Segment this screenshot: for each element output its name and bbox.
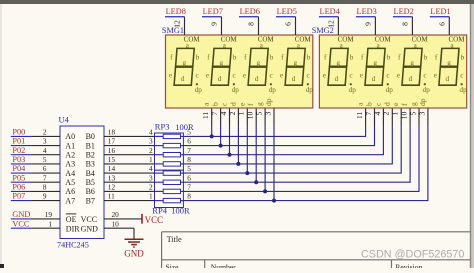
digit upper box outline <box>287 48 306 66</box>
seven-segment digit 3 of SMG2 <box>397 35 430 94</box>
svg-text:7: 7 <box>364 112 373 116</box>
window top bar <box>0 0 474 4</box>
svg-text:B2: B2 <box>86 150 95 159</box>
svg-text:17: 17 <box>108 137 116 146</box>
junction dot 2 <box>219 144 223 148</box>
svg-text:dp: dp <box>195 86 203 94</box>
svg-text:g: g <box>447 59 451 67</box>
wire segment net 5 horizontal <box>183 172 401 174</box>
SMG2 common pin 9 <box>363 17 375 35</box>
svg-text:g: g <box>336 59 340 67</box>
svg-text:5: 5 <box>43 155 47 164</box>
U4 pin 16 (B2) wire to RP <box>104 146 155 155</box>
digit upper box outline <box>213 48 232 66</box>
svg-text:Number: Number <box>211 263 236 268</box>
svg-text:B1: B1 <box>86 141 95 150</box>
U4 pin 1 (DIR) <box>32 219 60 228</box>
svg-text:15: 15 <box>108 155 116 164</box>
svg-text:dp: dp <box>423 86 431 94</box>
junction dot 5 <box>245 171 249 175</box>
svg-text:B4: B4 <box>86 169 95 178</box>
svg-text:5: 5 <box>187 164 191 173</box>
SMG1 common pin 12 <box>173 17 185 35</box>
svg-text:P03: P03 <box>12 155 25 164</box>
svg-text:A7: A7 <box>65 196 75 205</box>
IC U4 74HC245 body <box>60 126 104 239</box>
U4 pin 8 (A6) <box>32 183 60 192</box>
power port VCC bar <box>141 214 143 224</box>
wire SMG2 pin drop 6 <box>409 108 411 183</box>
svg-text:e: e <box>280 71 283 79</box>
svg-text:d: d <box>181 75 185 83</box>
svg-text:d: d <box>372 75 376 83</box>
svg-text:20: 20 <box>112 210 120 219</box>
svg-text:11: 11 <box>355 112 364 120</box>
svg-text:8: 8 <box>187 155 191 164</box>
digit lower box outline <box>211 67 230 85</box>
svg-text:d: d <box>382 102 391 106</box>
svg-text:dp: dp <box>232 86 240 94</box>
wire net LED2 <box>393 16 413 18</box>
wire net P06 <box>11 190 32 192</box>
svg-text:dp: dp <box>264 98 273 106</box>
svg-text:B7: B7 <box>86 196 95 205</box>
svg-text:12: 12 <box>108 183 116 192</box>
svg-text:6: 6 <box>187 173 191 182</box>
wire SMG1 pin drop 8 <box>273 108 275 201</box>
svg-text:18: 18 <box>108 128 116 137</box>
svg-text:4: 4 <box>149 164 153 173</box>
svg-text:B5: B5 <box>86 178 95 187</box>
wire SMG1 pin drop 5 <box>246 108 248 173</box>
svg-text:100R: 100R <box>175 122 194 132</box>
SMG2 common pin 6 <box>437 17 449 35</box>
svg-text:RP3: RP3 <box>155 121 170 131</box>
svg-text:8: 8 <box>400 22 409 26</box>
svg-text:4: 4 <box>43 146 47 155</box>
svg-text:OE: OE <box>66 215 77 224</box>
svg-text:g: g <box>183 59 187 67</box>
wire net P01 <box>11 145 32 147</box>
digit lower box outline <box>248 67 267 85</box>
svg-text:g: g <box>409 102 418 106</box>
svg-text:P02: P02 <box>12 146 25 155</box>
svg-text:Revision: Revision <box>395 263 422 268</box>
resistor network RP4 body <box>155 170 184 207</box>
U4 pin 7 (A5) <box>32 173 60 182</box>
wire net P05 <box>11 181 32 183</box>
seven-segment digit 1 of SMG1 <box>169 35 202 94</box>
svg-text:7: 7 <box>187 146 191 155</box>
svg-text:LED8: LED8 <box>166 7 186 16</box>
svg-text:9: 9 <box>43 192 47 201</box>
digit upper box outline <box>330 48 349 66</box>
svg-text:dp: dp <box>306 86 314 94</box>
svg-text:100R: 100R <box>171 206 190 216</box>
SMG1 common pin 6 <box>284 17 296 35</box>
svg-text:P01: P01 <box>12 137 25 146</box>
svg-text:e: e <box>323 71 326 79</box>
svg-text:dp: dp <box>349 86 357 94</box>
display module SMG2 body <box>319 35 466 108</box>
U4 pin 15 (B3) wire to RP <box>104 155 155 164</box>
wire net LED3 <box>356 16 376 18</box>
U4 pin 3 (A1) <box>32 137 60 146</box>
resistor network RP3 label <box>155 121 194 132</box>
SMG1 common pin 9 <box>210 17 222 35</box>
svg-text:6: 6 <box>284 22 293 26</box>
U4 pin 5 (A3) <box>32 155 60 164</box>
svg-text:GND: GND <box>124 248 144 258</box>
U4 pin 17 (B1) wire to RP <box>104 137 155 146</box>
decimal point dot <box>270 83 272 85</box>
svg-text:VCC: VCC <box>12 219 30 228</box>
junction dot 7 <box>263 189 267 193</box>
svg-text:g: g <box>220 59 224 67</box>
svg-text:8: 8 <box>247 22 256 26</box>
wire net P02 <box>11 154 32 156</box>
resistor network RP4 label <box>152 206 190 216</box>
svg-text:10: 10 <box>400 111 409 119</box>
svg-text:12: 12 <box>173 20 182 28</box>
wire SMG2 pin drop 4 <box>391 108 393 164</box>
U4 pin 4 (A2) <box>32 146 60 155</box>
svg-text:LED2: LED2 <box>394 7 414 16</box>
wire VCC to U4 <box>11 227 32 229</box>
decimal point dot <box>387 83 389 85</box>
seven-segment digit 4 of SMG2 <box>434 35 467 94</box>
U4 pin 18 (B0) wire to RP <box>104 128 155 137</box>
U4 pin 10 (GND) wire <box>104 219 134 238</box>
digit lower box outline <box>174 67 193 85</box>
svg-text:4: 4 <box>149 128 153 137</box>
svg-text:c: c <box>386 72 389 80</box>
svg-text:A4: A4 <box>65 169 75 178</box>
svg-text:1: 1 <box>48 219 52 228</box>
wire SMG2 pin drop 8 <box>427 108 429 201</box>
svg-text:9: 9 <box>363 22 372 26</box>
wire net LED1 <box>430 16 450 18</box>
junction dot 3 <box>228 153 232 157</box>
svg-text:P07: P07 <box>12 192 25 201</box>
svg-text:2: 2 <box>149 146 153 155</box>
seven-segment digit 2 of SMG1 <box>206 35 239 94</box>
U4 pin 12 (B6) wire to RP <box>104 183 155 192</box>
svg-text:e: e <box>360 71 363 79</box>
svg-text:1: 1 <box>391 112 400 116</box>
svg-text:b: b <box>461 54 465 62</box>
decimal point dot <box>350 83 352 85</box>
U4 pin 13 (B5) wire to RP <box>104 173 155 182</box>
digit upper box outline <box>250 48 269 66</box>
svg-text:c: c <box>423 72 426 80</box>
SMG1 common pin 8 <box>247 17 259 35</box>
svg-text:A2: A2 <box>65 150 75 159</box>
digit upper box outline <box>176 48 195 66</box>
svg-text:c: c <box>307 72 310 80</box>
svg-text:12: 12 <box>326 20 335 28</box>
display module SMG1 body <box>166 35 313 108</box>
svg-text:A5: A5 <box>65 178 75 187</box>
decimal point dot <box>307 83 309 85</box>
svg-text:c: c <box>349 72 352 80</box>
digit upper box outline <box>440 48 459 66</box>
svg-text:LED1: LED1 <box>430 7 450 16</box>
wire net P07 <box>11 200 32 202</box>
bottom-left corner mark <box>0 264 4 268</box>
ground symbol <box>125 239 144 247</box>
wire net P04 <box>11 172 32 174</box>
resistor network RP3 body <box>155 133 184 170</box>
resistor element R3 in RP3 <box>155 153 184 157</box>
svg-text:GND: GND <box>81 225 99 234</box>
svg-text:CSDN @DOF526570: CSDN @DOF526570 <box>361 248 464 260</box>
svg-text:VCC: VCC <box>81 215 97 224</box>
junction dot 4 <box>236 162 240 166</box>
svg-text:P00: P00 <box>12 128 25 137</box>
svg-text:3: 3 <box>43 137 47 146</box>
svg-text:A1: A1 <box>65 141 75 150</box>
svg-text:dp: dp <box>460 86 468 94</box>
svg-text:LED6: LED6 <box>240 7 260 16</box>
wire SMG1 pin drop 4 <box>237 108 239 164</box>
wire segment net 4 horizontal <box>183 163 392 165</box>
wire SMG2 pin drop 7 <box>418 108 420 192</box>
wire net LED4 <box>319 16 339 18</box>
svg-text:d: d <box>446 75 450 83</box>
svg-text:5: 5 <box>187 128 191 137</box>
svg-text:g: g <box>294 59 298 67</box>
wire net LED6 <box>239 16 259 18</box>
U4 pin 6 (A4) <box>32 164 60 173</box>
U4 pin 19 (OE) <box>32 210 60 219</box>
svg-text:dp: dp <box>418 98 427 106</box>
svg-text:VCC: VCC <box>145 215 164 225</box>
junction dot 6 <box>254 180 258 184</box>
svg-text:6: 6 <box>43 164 47 173</box>
svg-text:4: 4 <box>373 112 382 116</box>
window left edge strip <box>0 4 2 268</box>
svg-text:d: d <box>409 75 413 83</box>
svg-text:d: d <box>292 75 296 83</box>
svg-text:GND: GND <box>12 210 30 219</box>
svg-text:7: 7 <box>187 183 191 192</box>
svg-text:g: g <box>373 59 377 67</box>
U4 pin 20 (VCC) <box>104 210 142 219</box>
wire segment net 8 horizontal <box>183 200 428 202</box>
svg-text:g: g <box>410 59 414 67</box>
svg-text:3: 3 <box>149 173 153 182</box>
svg-text:LED7: LED7 <box>203 7 223 16</box>
svg-text:d: d <box>218 75 222 83</box>
resistor element R5 in RP4 <box>155 171 184 175</box>
resistor element R6 in RP4 <box>155 180 184 184</box>
svg-text:B0: B0 <box>86 132 95 141</box>
resistor element R2 in RP3 <box>155 143 184 147</box>
svg-text:e: e <box>243 71 246 79</box>
digit lower box outline <box>285 67 304 85</box>
svg-text:LED3: LED3 <box>357 7 377 16</box>
window right scrollbar strip <box>471 4 474 268</box>
wire SMG2 pin drop 1 <box>365 108 367 137</box>
svg-text:DIR: DIR <box>66 225 80 234</box>
wire net P03 <box>11 163 32 165</box>
SMG2 common pin 8 <box>400 17 412 35</box>
svg-text:c: c <box>460 72 463 80</box>
svg-text:d: d <box>228 102 237 106</box>
svg-text:b: b <box>350 54 354 62</box>
seven-segment digit 3 of SMG1 <box>243 35 276 94</box>
svg-text:16: 16 <box>108 146 116 155</box>
wire segment net 2 horizontal <box>183 145 374 147</box>
svg-text:B6: B6 <box>86 187 95 196</box>
decimal point dot <box>424 83 426 85</box>
svg-text:2: 2 <box>43 128 47 137</box>
svg-text:b: b <box>365 102 374 106</box>
svg-text:b: b <box>196 54 200 62</box>
svg-text:e: e <box>397 71 400 79</box>
digit upper box outline <box>404 48 423 66</box>
svg-text:d: d <box>255 75 259 83</box>
U4 pin name OE (active low) <box>66 214 77 224</box>
svg-text:b: b <box>233 54 237 62</box>
svg-text:LED5: LED5 <box>277 7 297 16</box>
resistor element R8 in RP4 <box>155 198 184 202</box>
svg-text:B3: B3 <box>86 160 95 169</box>
svg-text:P04: P04 <box>12 164 26 173</box>
wire segment net 1 horizontal <box>183 135 365 137</box>
svg-text:g: g <box>255 102 264 106</box>
svg-text:c: c <box>270 72 273 80</box>
seven-segment digit 4 of SMG1 <box>280 35 313 94</box>
svg-text:A0: A0 <box>65 132 75 141</box>
svg-text:e: e <box>206 71 209 79</box>
svg-text:b: b <box>424 54 428 62</box>
svg-text:2: 2 <box>149 183 153 192</box>
digit lower box outline <box>439 67 458 85</box>
U4 pin 9 (A7) <box>32 192 60 201</box>
wire GND to U4 <box>11 218 32 220</box>
svg-text:8: 8 <box>43 183 47 192</box>
svg-text:7: 7 <box>43 173 47 182</box>
U4 pin 11 (B7) wire to RP <box>104 192 155 201</box>
U4 pin 14 (B4) wire to RP <box>104 164 155 173</box>
title block frame <box>162 232 470 268</box>
svg-text:5: 5 <box>255 112 264 116</box>
svg-text:1: 1 <box>149 155 153 164</box>
svg-text:13: 13 <box>108 173 116 182</box>
decimal point dot <box>233 83 235 85</box>
svg-text:U4: U4 <box>59 115 70 125</box>
svg-text:6: 6 <box>187 137 191 146</box>
svg-text:P05: P05 <box>12 173 25 182</box>
svg-text:19: 19 <box>45 210 53 219</box>
svg-text:3: 3 <box>149 137 153 146</box>
svg-text:2: 2 <box>228 112 237 116</box>
digit lower box outline <box>402 67 421 85</box>
wire segment net 3 horizontal <box>183 154 383 156</box>
wire net P00 <box>11 135 32 137</box>
svg-text:c: c <box>233 72 236 80</box>
svg-text:10: 10 <box>112 219 120 228</box>
svg-text:e: e <box>434 71 437 79</box>
decimal point dot <box>461 83 463 85</box>
junction dot 8 <box>272 199 276 203</box>
wire SMG1 pin drop 2 <box>220 108 222 146</box>
svg-text:P06: P06 <box>12 183 25 192</box>
wire net LED8 <box>165 16 185 18</box>
resistor element R4 in RP3 <box>155 162 184 166</box>
svg-text:Size: Size <box>165 263 179 268</box>
digit lower box outline <box>328 67 347 85</box>
wire SMG2 pin drop 5 <box>400 108 402 174</box>
svg-text:4: 4 <box>219 112 228 116</box>
wire SMG2 pin drop 3 <box>382 108 384 155</box>
SMG2 common pin 12 <box>326 17 338 35</box>
svg-text:7: 7 <box>210 112 219 116</box>
svg-text:b: b <box>211 102 220 106</box>
wire SMG1 pin drop 3 <box>229 108 231 155</box>
svg-text:1: 1 <box>149 192 153 201</box>
svg-text:Title: Title <box>167 235 182 244</box>
svg-text:e: e <box>169 71 172 79</box>
wire SMG2 pin drop 2 <box>374 108 376 146</box>
digit lower box outline <box>365 67 384 85</box>
svg-text:9: 9 <box>210 22 219 26</box>
wire segment net 6 horizontal <box>183 181 410 183</box>
svg-text:b: b <box>387 54 391 62</box>
wire SMG1 pin drop 7 <box>264 108 266 191</box>
svg-text:LED4: LED4 <box>320 7 341 16</box>
resistor element R1 in RP3 <box>155 134 184 138</box>
U4 pin 2 (A0) <box>32 128 60 137</box>
svg-text:c: c <box>196 72 199 80</box>
svg-text:11: 11 <box>201 112 210 120</box>
svg-text:dp: dp <box>386 86 394 94</box>
svg-text:b: b <box>270 54 274 62</box>
svg-text:5: 5 <box>408 112 417 116</box>
wire net LED5 <box>276 16 296 18</box>
svg-text:6: 6 <box>437 22 446 26</box>
svg-text:74HC245: 74HC245 <box>57 241 89 250</box>
junction dot 1 <box>210 134 214 138</box>
digit upper box outline <box>367 48 386 66</box>
svg-text:2: 2 <box>382 112 391 116</box>
wire SMG1 pin drop 6 <box>255 108 257 182</box>
wire segment net 7 horizontal <box>183 190 419 192</box>
svg-text:b: b <box>307 54 311 62</box>
resistor element R7 in RP4 <box>155 189 184 193</box>
wire net LED7 <box>202 16 222 18</box>
svg-text:3: 3 <box>417 112 426 116</box>
svg-text:10: 10 <box>246 111 255 119</box>
decimal point dot <box>196 83 198 85</box>
svg-text:14: 14 <box>108 164 116 173</box>
svg-text:RP4: RP4 <box>152 206 167 216</box>
svg-text:d: d <box>335 75 339 83</box>
svg-text:3: 3 <box>263 112 272 116</box>
seven-segment digit 2 of SMG2 <box>360 35 393 94</box>
seven-segment digit 1 of SMG2 <box>323 35 356 94</box>
svg-text:g: g <box>257 59 261 67</box>
svg-text:A6: A6 <box>65 187 75 196</box>
svg-text:11: 11 <box>108 192 115 201</box>
svg-text:A3: A3 <box>65 160 75 169</box>
wire SMG1 pin drop 1 <box>211 108 213 136</box>
svg-text:1: 1 <box>237 112 246 116</box>
svg-text:dp: dp <box>269 86 277 94</box>
svg-text:8: 8 <box>187 192 191 201</box>
